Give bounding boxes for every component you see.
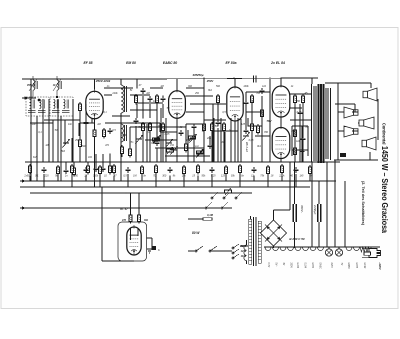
resistor R15 [217,94,220,105]
wire v295-138 [294,138,296,162]
wire T5 primary top [250,216,252,219]
wire v92-118 [91,118,93,123]
svg-text:20n: 20n [206,137,212,140]
wire v53-120 [52,120,54,162]
wire v270-79 [269,79,271,162]
wire v300-104 [299,104,301,110]
wire motor lead [188,218,203,220]
wire v143-132 [142,132,144,162]
svg-text:25k: 25k [181,175,187,178]
trimmer arrow at 193 [189,134,197,143]
capacitor C8 [141,88,146,94]
wire AVC bus [20,180,336,182]
wire hh116-112 [112,115,130,117]
resistor R30 [29,164,32,175]
wire v204-132 [203,132,205,162]
wire v308-126 [307,126,309,156]
resistor R35 [99,165,102,176]
wire v88-162 [87,162,89,166]
resistor R33 [71,164,74,175]
wire v246-106 [245,106,247,128]
heater row labels [267,263,365,270]
heater winding W7 [354,247,360,251]
trimmer arrow at 139 [135,135,143,144]
svg-text:1M: 1M [45,144,48,147]
svg-text:7V: 7V [340,263,342,266]
wire h150-292 [292,149,308,151]
svg-text:0,25: 0,25 [211,175,216,178]
IF transformer T2 (IF filter II) [50,76,73,116]
input arrow at chassis bus [20,207,25,209]
wire C51 down [294,222,296,248]
capacitor C31 [42,167,47,173]
wire T2 ground return [60,116,62,181]
wire v214-118 [213,118,215,162]
wire top bus right [160,78,310,79]
switch S2 [205,202,228,209]
capacitor C50 (electrolytic) [318,204,321,222]
wire v80-112 [79,112,81,140]
wire speaker bus left [337,83,339,160]
svg-text:125: 125 [221,175,226,178]
resistor R20 (grid) [261,108,264,119]
capacitor C6 [134,118,139,124]
wire v122-147 [121,147,123,157]
wire V1 cathode to ground bus [94,139,96,188]
wire primary bottom [246,261,248,265]
resistor R26 [121,145,124,156]
wire v213-104 [212,104,214,162]
svg-text:485/50µ: 485/50µ [192,73,204,77]
svg-text:100k: 100k [243,85,249,88]
resistor R48 [281,164,284,175]
tube V4 EL 84 [272,84,290,117]
svg-text:Kl. 47: Kl. 47 [120,207,128,211]
wire v241-119 [240,119,242,162]
wire GR1 plus [273,210,275,220]
svg-text:10n: 10n [153,100,158,103]
svg-text:EM 80: EM 80 [126,61,136,65]
resistor R42 [197,164,200,175]
resistor R16 [223,122,226,133]
svg-text:2M: 2M [96,123,100,126]
wire v58-99 [57,99,59,162]
fuse Si1 [364,252,371,255]
svg-text:350: 350 [74,175,79,178]
coil L2 (secondary) [121,124,127,142]
wire v204-148 [203,148,205,162]
svg-text:4V: 4V [282,263,284,266]
svg-text:80 W: 80 W [192,231,200,235]
wire v31-79 [30,79,32,181]
svg-text:1k5: 1k5 [299,175,304,178]
wire top bus left [22,78,160,80]
capacitor C1 [84,120,89,126]
resistor R6 [109,164,112,175]
potentiometer P1 (volume) [153,136,160,143]
loudspeaker LS2 [344,107,358,118]
resistor R19 [251,122,254,133]
resistor R50 [309,165,312,176]
svg-text:270: 270 [121,219,127,222]
wire v252-132 [251,132,253,162]
wire hh112-186 [186,111,204,113]
wire primary top [246,240,248,245]
wire h123-105 [105,122,117,124]
T5 primary winding bumps [244,245,247,261]
wire mid h [335,103,355,105]
wire C50 top [318,181,320,204]
svg-text:~220V: ~220V [378,262,382,270]
svg-text:8k2: 8k2 [208,89,213,92]
resistor R10 [149,122,152,133]
capacitor C17 [260,88,265,94]
wire LS2-LS3 link [352,111,358,113]
wire box to terminal [147,237,153,239]
wire speakers right common [377,99,379,140]
wire hh103-136 [136,102,163,104]
capacitor C40 [168,167,173,173]
potentiometer P4 (balance) [197,149,204,156]
wire v74-162 [73,162,75,168]
wire v248-118 [247,118,249,126]
switch S4 (mains) [188,246,232,252]
wire V6 grid feed [130,193,132,215]
wire B+ feed 0 [289,162,291,210]
wire h132-160 [160,131,177,133]
wire v212-132 [211,132,213,162]
ground G1 [147,249,152,253]
capacitor C9 [155,140,160,146]
wire chassis bus [20,207,232,209]
capacitor C3 [108,128,113,134]
wire V3 cathode [234,121,236,162]
svg-text:300: 300 [151,142,156,145]
wire V4-V5 link [280,117,282,128]
svg-text:6n8: 6n8 [33,156,38,159]
wire LS5 return [369,152,371,160]
svg-text:2x50µF: 2x50µF [313,204,317,215]
wire v143-96 [142,96,144,118]
resistive cord (zigzag) [360,247,371,252]
wire hh120-290 [290,119,312,121]
svg-text:250V-220k: 250V-220k [95,79,111,83]
wire V2 top [176,79,178,91]
wire v137-79 [136,79,138,88]
resistor R5 [103,128,106,139]
wire h136-255 [255,135,270,137]
capacitor C20 [300,148,305,154]
svg-text:10n: 10n [68,123,73,126]
svg-text:250V: 250V [206,79,215,83]
resistor R24 [129,213,132,224]
wire v163-130 [162,130,164,162]
wire GR1 minus [273,246,275,248]
wire V6 left return [101,187,103,261]
svg-text:350: 350 [296,100,301,103]
wire V1 anode to bus [94,79,96,90]
svg-text:Continental: Continental [382,123,387,145]
wire v218-128 [217,128,219,162]
trimmer arrow at 174 [170,146,178,155]
tube V6 EC 92 (phono preamp) [127,225,141,255]
svg-text:EABC: EABC [319,263,322,270]
svg-text:6,3V: 6,3V [267,263,269,268]
wire to LA1 [328,247,330,249]
wire v65-120 [64,120,66,145]
wire v79-123 [78,123,80,136]
wire v150-130 [149,130,151,162]
mains plug [362,249,381,258]
wire hh112-246 [246,111,262,113]
junction dots on AVC bus [29,180,311,182]
wire V3 anode [234,78,236,87]
secondary winding sec4 [288,247,294,251]
svg-text:30k: 30k [144,219,149,222]
wire h124-186 [186,123,204,125]
wire v186-136 [185,136,187,144]
resistor R26b [203,218,212,221]
wire v231-118 [230,118,232,162]
wire heater feed 1 [311,162,313,247]
wire to LS4 [338,130,344,132]
tie wires to bus [30,174,310,187]
switch S1 (band selector) [211,192,242,199]
resistor R23 (screen) [302,94,305,105]
svg-text:25k: 25k [74,139,80,142]
svg-text:5V~: 5V~ [275,263,277,268]
resistor R11 [156,94,159,105]
capacitor C10 [161,96,166,102]
svg-text:2x50: 2x50 [23,175,30,178]
wire h156-165 [165,155,210,157]
svg-text:125: 125 [241,123,246,126]
resistor R47 [267,165,270,176]
lamp LA2 (dial lamp) [335,249,342,256]
wire v270-121 [269,121,271,128]
wire ground bus [20,186,310,188]
svg-text:EF85: EF85 [355,263,357,269]
wire v262-118 [261,118,263,162]
transformer T3 (ratio detector) [121,85,127,113]
wire T1 ground return [36,116,38,181]
wire V5 down [280,159,282,163]
wire hh88-104 [104,87,133,89]
capacitor C5 [94,166,99,172]
wire T3 bottom [120,113,122,162]
secondary winding sec1 [265,247,271,251]
loudspeaker LS1 [363,88,377,101]
capacitor C12 [192,124,197,130]
resistor R18 [251,94,254,105]
wire v225-132 [224,132,226,162]
wire to LA2 [338,247,340,249]
svg-text:EF80: EF80 [311,263,313,269]
svg-text:Wk 2-ad: Wk 2-ad [245,142,249,152]
svg-text:220k: 220k [278,175,285,178]
wire v166-118 [165,118,167,162]
wire hh94-290 [290,93,312,95]
V6 grid lead inside [130,228,132,240]
wire h140-145 [145,139,177,141]
wire T2 secondary feed [72,99,74,162]
svg-text:0,25: 0,25 [297,111,302,114]
wire v150-104 [149,104,151,118]
wire v160-123 [159,123,161,132]
capacitor C43 [210,167,215,173]
secondary winding sec3 [280,247,286,251]
wire anode top to T4 [282,77,319,79]
wire T1 secondary feed [48,99,50,162]
svg-text:250V: 250V [290,263,292,269]
svg-text:1450 W – Stereo Graciosa: 1450 W – Stereo Graciosa [380,146,390,233]
wire V1 cathode down [94,119,96,129]
capacitor C21 (coupling on anode bus) [254,76,257,83]
svg-text:EM80: EM80 [347,263,349,270]
wire v157-104 [156,104,158,140]
heater winding W2 [303,247,309,251]
wire hh95-130 [130,94,150,96]
wire v103-154 [102,154,104,166]
capacitor C18 [298,110,303,116]
wire B+ feed 0b [294,162,296,204]
wire LS4 link [352,130,358,132]
svg-text:EC92: EC92 [363,263,365,269]
trimmer arrow at 66 [62,139,70,148]
wire v177-124 [176,124,178,128]
wire v121-113 [120,113,122,124]
svg-text:300: 300 [188,85,193,88]
wire h126-248 [248,125,262,127]
resistor R17 [211,122,214,133]
wire V2 down [176,118,178,162]
wire T4 primary left leg [311,84,313,162]
wire v80-148 [79,148,81,162]
power transformer T5 [249,217,262,266]
wire v221-118 [220,118,222,162]
wire v204-79 [203,79,205,162]
svg-text:220k: 220k [29,123,36,126]
svg-text:EF 85: EF 85 [83,61,92,65]
loudspeaker LS4 [344,126,358,137]
wire v137-104 [136,104,138,118]
wire to GR1 [274,209,291,211]
trimmer arrow at 157 [153,135,161,144]
wire hh123-30 [30,122,53,124]
value labels row2 [23,175,313,178]
wire v188-130 [187,130,189,162]
loudspeaker LS5 [362,137,376,150]
resistor R8 [135,94,138,105]
lamp LA1 (dial lamp) [325,249,332,256]
resistor R4 (cathode) [93,128,96,139]
wire to LS3 [358,122,359,124]
antenna input arrow [22,97,28,99]
heater winding W6 [346,247,352,251]
wire into T4 [311,78,313,84]
wire L2 down [120,142,122,181]
svg-text:10,7: 10,7 [53,85,58,87]
resistor R38 [141,165,144,176]
capacitor C37 [126,167,131,173]
wire v238-118 [237,118,239,162]
svg-text:5k6: 5k6 [61,150,66,153]
wire hh88-186 [186,87,204,89]
svg-text:1M: 1M [160,85,163,88]
svg-text:8k2: 8k2 [158,125,163,128]
svg-text:EL84: EL84 [296,263,298,269]
svg-text:(2. Teil des Schaltbildes): (2. Teil des Schaltbildes) [361,181,366,226]
tube V3 EF 80 [227,85,243,121]
wire v258-126 [257,126,259,134]
wire LS1 drop [370,83,372,88]
resistor R12 [162,122,165,133]
svg-text:100k: 100k [121,134,127,137]
wire v161-108 [160,108,162,162]
wire v163-104 [162,104,164,118]
wire hh104-190 [190,103,226,105]
wire v303-142 [302,142,304,162]
wire v186-124 [185,124,187,136]
resistor R32 [57,165,60,176]
resistor R22 [294,128,297,139]
svg-text:1M: 1M [133,175,136,178]
wire v66-162 [65,162,67,168]
wire h123-117 [117,122,160,124]
wire to LS2 [338,111,344,113]
loudspeaker LS3 [359,117,374,129]
wire heater chain bus [264,246,380,248]
capacitor C11 [179,130,184,136]
wire hh120-204 [204,119,226,121]
wire mains to T5 [240,245,248,247]
svg-text:220k: 220k [111,92,118,95]
IF transformer T1 (IF filter I) [26,76,49,116]
svg-text:0,05: 0,05 [249,139,254,142]
svg-text:9k1: 9k1 [257,145,262,148]
wire v295-104 [294,104,296,162]
shield box for V6 [118,222,147,261]
svg-text:0,25: 0,25 [165,133,170,136]
svg-text:EL84: EL84 [304,263,306,269]
wire anode supply bus [25,161,340,163]
wire V4 anode [280,78,282,86]
capacitor C51 (electrolytic) [293,204,296,222]
wire v72-138 [71,138,73,162]
trimmer arrow at 246 [242,132,250,141]
resistor R41 [183,165,186,176]
wire hh120-44 [44,119,80,121]
wire hh110-130 [130,109,157,111]
wire T3 top feed [120,79,122,85]
junction dot IF can 2 [56,96,58,98]
wire v86-126 [85,126,87,162]
svg-text:500: 500 [216,85,221,88]
capacitor C14 [216,120,221,126]
resistor R29 [294,146,297,157]
wire v177-132 [176,132,178,162]
wire T4 to speaker bus [325,82,338,84]
capacitor C15 [244,100,249,106]
capacitor C16 [244,128,249,134]
tube V2 EABC 80 [169,89,186,119]
wire v110-154 [109,154,111,166]
tube V1 EF 85 [86,89,103,119]
wire v86-104 [85,104,87,120]
value labels scatter [29,123,308,159]
wire v130-127 [129,127,131,147]
svg-text:2x EL 84: 2x EL 84 [270,61,285,65]
